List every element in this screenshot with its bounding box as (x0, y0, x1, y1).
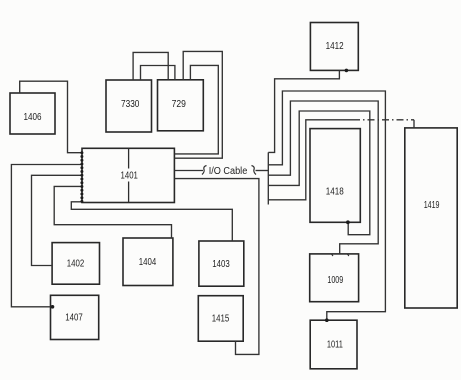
svg-text:7330: 7330 (121, 99, 140, 110)
wire 729 top to 1401 right edge (outer hook) (174, 51, 222, 158)
box 1403 (199, 241, 244, 286)
box 1009 (310, 254, 359, 302)
wire I/O cable left segment from 1401 right edge (174, 170, 203, 172)
box 1419 (405, 128, 457, 308)
left cable-break bracket (202, 166, 207, 175)
svg-text:1415: 1415 (212, 314, 230, 325)
wire I/O trunk vertical (267, 152, 269, 204)
svg-text:1406: 1406 (24, 112, 42, 123)
box 1011 (310, 320, 357, 369)
box 729 (158, 80, 204, 131)
node dot on 1418 bottom edge (346, 220, 350, 224)
svg-text:1418: 1418 (326, 187, 344, 198)
node dot at 1407 left entry (51, 305, 55, 309)
wire 1401 left edge to 1402 left side (32, 175, 83, 265)
box 1415 (198, 296, 243, 342)
wire 1401 left edge to 1407 left side (11, 165, 82, 307)
wire trunk to 1009 top (over-the-top cable) (268, 101, 378, 254)
wire I/O cable right segment to trunk (256, 170, 269, 172)
wire 7330 top to 729 top (inner hook) (141, 66, 175, 81)
box 1401 (82, 148, 174, 202)
wire 1401 right edge to 1415 bottom (174, 179, 259, 355)
label 1401 (on white patch over divider) (119, 170, 139, 181)
box 1407 (51, 295, 99, 339)
wire 7330 top to 729 top (outer hook) (133, 52, 168, 80)
box 1406 (10, 93, 55, 134)
svg-text:1412: 1412 (326, 41, 344, 52)
divider line inside 1401 (128, 148, 130, 202)
box 1402 (52, 243, 99, 285)
wire 1419 drop from dash-dot line (413, 120, 415, 128)
right cable-break bracket (252, 166, 257, 175)
wire trunk to 1419 top, solid part (268, 120, 353, 200)
svg-text:1011: 1011 (327, 340, 343, 351)
svg-text:1404: 1404 (139, 257, 157, 268)
box 7330 (106, 80, 152, 132)
svg-text:1403: 1403 (212, 259, 230, 270)
wire 1401 left edge to 1404 top (54, 186, 171, 238)
box 1404 (123, 238, 173, 286)
wire 729 top to 1401 right edge (inner hook) (174, 65, 218, 153)
svg-text:1407: 1407 (65, 313, 83, 324)
node dot on 1011 top edge (325, 318, 329, 322)
box 1418 (310, 129, 360, 223)
wire dash-dot segment to 1419 (353, 119, 414, 121)
node dots on 1401 left edge (80, 151, 83, 203)
wire 1406 top to 1401 left edge (20, 81, 82, 153)
svg-text:1402: 1402 (67, 259, 85, 270)
svg-text:I/O Cable: I/O Cable (209, 166, 248, 177)
tick marks on 1009 top edge (331, 254, 349, 256)
svg-text:729: 729 (172, 99, 187, 110)
wire trunk to 1011 top (over-the-top cable) (268, 91, 385, 320)
wire trunk to 1418 bottom (over-the-top cable) (268, 111, 370, 235)
svg-text:1419: 1419 (424, 200, 440, 211)
wire 1412 bottom to trunk top (268, 70, 339, 152)
wire 1401 bottom-left to 1403 top (71, 202, 232, 241)
box 1412 (310, 23, 358, 71)
svg-text:1009: 1009 (327, 275, 343, 286)
node dot on 1412 bottom edge (345, 69, 349, 73)
svg-text:1401: 1401 (121, 171, 139, 182)
